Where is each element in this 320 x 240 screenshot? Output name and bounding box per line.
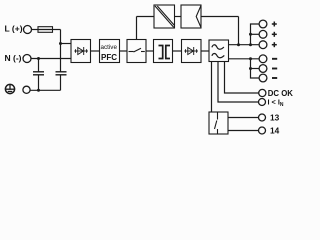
svg-text:PFC: PFC (101, 53, 117, 62)
svg-text:L (+): L (+) (5, 24, 23, 34)
svg-text:I < IN: I < IN (268, 98, 284, 108)
svg-text:14: 14 (270, 126, 280, 136)
svg-text:13: 13 (270, 113, 280, 123)
svg-text:DC OK: DC OK (268, 89, 293, 98)
svg-text:active: active (101, 44, 118, 51)
svg-text:N (-): N (-) (5, 53, 22, 63)
